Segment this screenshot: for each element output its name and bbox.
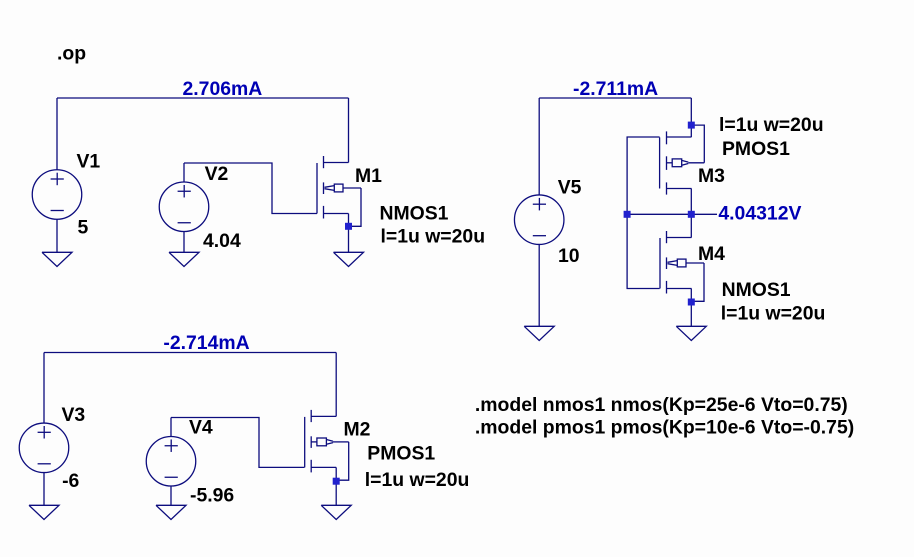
svg-text:M4: M4 (698, 243, 725, 265)
svg-text:-6: -6 (62, 470, 79, 492)
svg-text:.model nmos1 nmos(Kp=25e-6 Vto: .model nmos1 nmos(Kp=25e-6 Vto=0.75) (475, 394, 848, 416)
svg-text:V3: V3 (62, 404, 86, 426)
svg-text:l=1u w=20u: l=1u w=20u (381, 225, 486, 247)
svg-text:NMOS1: NMOS1 (722, 279, 791, 301)
svg-text:5: 5 (78, 216, 89, 238)
svg-text:-2.714mA: -2.714mA (163, 332, 249, 354)
svg-text:NMOS1: NMOS1 (380, 203, 449, 225)
svg-text:-5.96: -5.96 (190, 484, 234, 506)
svg-text:PMOS1: PMOS1 (367, 443, 435, 465)
svg-text:2.706mA: 2.706mA (183, 78, 263, 100)
svg-text:M3: M3 (698, 165, 725, 187)
svg-text:M2: M2 (344, 418, 371, 440)
svg-text:PMOS1: PMOS1 (722, 138, 790, 160)
svg-text:V1: V1 (77, 150, 101, 172)
svg-text:-2.711mA: -2.711mA (573, 78, 658, 100)
svg-text:l=1u w=20u: l=1u w=20u (719, 114, 824, 136)
svg-text:V5: V5 (558, 176, 582, 198)
svg-text:l=1u w=20u: l=1u w=20u (721, 303, 826, 325)
svg-text:10: 10 (558, 245, 580, 267)
svg-text:.op: .op (57, 43, 86, 65)
svg-text:V2: V2 (205, 163, 229, 185)
svg-text:M1: M1 (355, 165, 382, 187)
svg-text:.model pmos1 pmos(Kp=10e-6 Vto: .model pmos1 pmos(Kp=10e-6 Vto=-0.75) (475, 417, 854, 439)
svg-text:4.04312V: 4.04312V (718, 203, 801, 225)
svg-text:V4: V4 (189, 416, 213, 438)
svg-text:l=1u w=20u: l=1u w=20u (365, 469, 470, 491)
svg-text:4.04: 4.04 (203, 230, 241, 252)
